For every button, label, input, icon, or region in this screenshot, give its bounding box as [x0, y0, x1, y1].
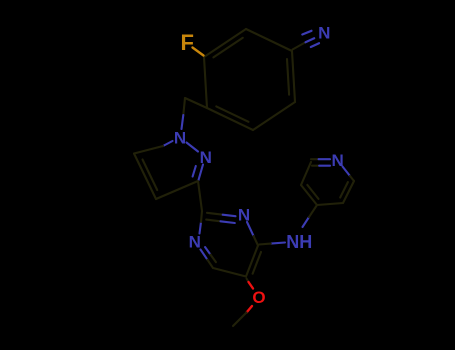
nitrile group C#N on benzene — [293, 23, 331, 49]
svg-text:O: O — [252, 288, 265, 307]
pyrimidine ring C2,N3,C4,C5,C6,N1 — [189, 206, 261, 277]
svg-text:N: N — [174, 128, 186, 147]
svg-text:N: N — [200, 148, 212, 167]
svg-text:F: F — [180, 30, 193, 55]
svg-text:N: N — [238, 206, 250, 225]
bond pyrazole C3 - pyrimidine C2 — [198, 181, 202, 211]
fluorine substituent F on benzene C3 — [180, 30, 203, 56]
svg-text:N: N — [189, 232, 201, 251]
svg-text:NH: NH — [286, 232, 312, 252]
methoxy group O-CH3 on pyrimidine C5 — [233, 279, 266, 327]
pyrazole ring N1,N2,C3,C4,C5 — [134, 128, 212, 199]
benzene ring C1-C6 (benzonitrile core) — [204, 29, 295, 130]
svg-text:N: N — [318, 23, 330, 42]
benzylic CH2 linker benzene C4 to pyrazole N1 — [182, 98, 208, 129]
secondary amine NH bridge pyrimidine C4 - pyridine C4 — [259, 205, 317, 252]
pyridine ring N1,C2,C3,C4,C5,C6 — [301, 151, 354, 205]
